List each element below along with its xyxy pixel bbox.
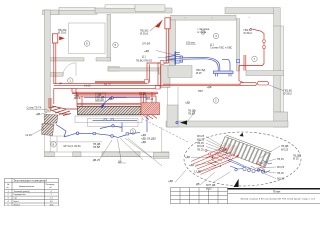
svg-text:2: 2 <box>8 194 10 196</box>
room 4 <box>213 33 218 38</box>
svg-text:Площадь,: Площадь, <box>46 184 56 186</box>
room 3 <box>130 129 135 134</box>
wall bath shaft vertical <box>170 20 176 66</box>
callout dashed ellipse <box>184 132 301 186</box>
title block leaders <box>175 170 186 183</box>
svg-text:ФЛ,25: ФЛ,25 <box>281 147 289 151</box>
riser pair left vertical <box>53 43 55 84</box>
svg-text:Д.1: Д.1 <box>142 55 146 59</box>
svg-text:Тепловой узел(а): Тепловой узел(а) <box>14 190 30 193</box>
detail top arrow mark <box>240 133 244 137</box>
red pipe scribble over wall <box>49 107 71 116</box>
legend table bottom-left <box>5 178 59 206</box>
svg-text:ФЛ,13: ФЛ,13 <box>146 97 154 101</box>
svg-text:+ДВ: +ДВ <box>144 49 149 53</box>
wall top far-right band <box>225 8 274 14</box>
svg-text:ГВ,ВО,ПВ Ø2: ГВ,ВО,ПВ Ø2 <box>136 59 153 63</box>
manifold red hatch block <box>141 103 160 115</box>
wall top light band 2 <box>135 5 165 12</box>
svg-text:Стояк Т3-Т4: Стояк Т3-Т4 <box>27 106 42 110</box>
kitchen right wall line <box>177 87 179 121</box>
wall top light band <box>59 7 95 12</box>
svg-text:ДВ,25: ДВ,25 <box>93 158 101 162</box>
svg-text:ГВ,25: ГВ,25 <box>197 148 204 152</box>
radiator axonometric fins <box>220 135 272 168</box>
svg-text:5: 5 <box>115 43 117 47</box>
fitting right of towel rail <box>237 60 240 63</box>
svg-text:ФЛ,25: ФЛ,25 <box>197 144 205 148</box>
svg-text:+ДВ: +ДВ <box>185 101 190 105</box>
red drops under manifold <box>143 115 157 120</box>
left wall red drops <box>48 98 50 108</box>
svg-text:2: 2 <box>215 99 217 103</box>
towel pipe run <box>183 57 220 70</box>
svg-text:ДВ2Ф: ДВ2Ф <box>74 96 81 100</box>
bottom wall thin line left part <box>44 151 169 153</box>
circled b <box>201 30 205 34</box>
wall left vertical <box>44 10 50 112</box>
room 7 <box>252 56 257 61</box>
svg-text:+ДВ: +ДВ <box>189 163 194 167</box>
wall right outer light <box>280 26 283 112</box>
svg-text:6: 6 <box>86 42 88 46</box>
svg-text:Ø 25х2: Ø 25х2 <box>140 31 149 35</box>
svg-text:1: 1 <box>69 79 71 83</box>
anchor triangle kitchen <box>180 120 187 124</box>
room 8 <box>51 142 56 147</box>
radiator bar plan (hatched) <box>78 106 142 114</box>
svg-text:ФЛ,25: ФЛ,25 <box>277 165 285 169</box>
svg-text:ФЛ,25: ФЛ,25 <box>277 177 285 181</box>
red bits in valve train <box>251 162 265 171</box>
svg-text:12,25: 12,25 <box>25 133 32 137</box>
svg-text:19,08: 19,08 <box>84 84 91 88</box>
kitchen bottom line <box>162 151 169 153</box>
svg-text:Ø 25: Ø 25 <box>206 187 212 191</box>
svg-text:+ДВ: +ДВ <box>141 133 146 137</box>
door arc room1 <box>63 63 76 76</box>
detail right leader fan <box>260 146 280 158</box>
svg-text:3: 3 <box>8 198 10 200</box>
bath blue polyline <box>100 126 122 129</box>
riser jog to corridor <box>147 63 166 82</box>
svg-text:12 ДВ: 12 ДВ <box>194 170 201 174</box>
callout dashed leader <box>142 119 189 143</box>
wall top band right of riser <box>171 15 237 20</box>
comb leaders to labels <box>156 51 175 56</box>
svg-text:+ДВ ОК,ДВ2: +ДВ ОК,ДВ2 <box>141 137 156 141</box>
wall top main band <box>59 10 97 14</box>
svg-text:ОП.ФЛ: ОП.ФЛ <box>142 42 150 46</box>
svg-text:Суз: Суз <box>14 198 17 200</box>
radiator red hatch overlay <box>215 142 239 163</box>
svg-text:ГВ,25: ГВ,25 <box>197 141 204 145</box>
room6 inner inset rectangle <box>69 23 106 54</box>
svg-text:Кухня: Кухня <box>14 201 19 203</box>
svg-text:Ø 25х2: Ø 25х2 <box>58 30 67 34</box>
svg-text:Ø 25: Ø 25 <box>196 71 202 75</box>
svg-text:10,ДВ: 10,ДВ <box>139 92 146 96</box>
svg-text:ГВ,ВЛ: ГВ,ВЛ <box>93 145 101 149</box>
bath leaders to labels <box>100 140 113 160</box>
svg-text:1,1: 1,1 <box>50 198 54 200</box>
radiator right room <box>240 83 256 86</box>
red pair y81.5 corridor <box>95 80 147 82</box>
wall kitchen left vertical <box>167 105 178 127</box>
svg-text:+ДВ: +ДВ <box>185 155 190 159</box>
right risers to towel rail <box>243 55 245 71</box>
svg-text:ДВ: ДВ <box>196 182 200 186</box>
riser arrow top <box>155 19 163 27</box>
left wall hatched piece lower <box>42 124 54 136</box>
red valve circles on supply pipes <box>205 149 214 158</box>
svg-text:8: 8 <box>53 143 55 147</box>
red run y88.3 <box>54 87 161 89</box>
svg-text:+ДВ: +ДВ <box>35 112 40 116</box>
svg-text:Стояки ГВС и ХВС: Стояки ГВС и ХВС <box>210 45 232 49</box>
bundle y92-96 <box>72 91 158 93</box>
svg-text:ГВ,25: ГВ,25 <box>277 157 284 161</box>
detail bottom leaders <box>213 172 230 183</box>
wall room6 bottom <box>50 58 84 61</box>
blue diagonal arrow corridor <box>102 97 113 106</box>
wall top thin band above <box>105 5 135 8</box>
blue pipes threading under radiator <box>225 158 252 170</box>
blue valve train axo <box>230 161 272 174</box>
radiator enclosure inner <box>88 119 139 127</box>
niche blue line <box>93 119 138 121</box>
red supply pipes axo <box>191 148 239 175</box>
svg-text:м²: м² <box>50 186 52 189</box>
room 1 <box>68 78 73 83</box>
bathroom divider vertical <box>56 136 58 152</box>
svg-text:ФЛ,25: ФЛ,25 <box>197 137 205 141</box>
red run y83.5 <box>54 82 147 84</box>
svg-text:Ø 25х2: Ø 25х2 <box>244 31 253 35</box>
svg-text:Гардеробная: Гардеробная <box>14 194 26 196</box>
room 6 <box>84 41 89 46</box>
bath fixture line <box>50 141 103 143</box>
svg-text:ГВ,25: ГВ,25 <box>277 171 284 175</box>
section arrow black <box>234 179 239 187</box>
svg-text:Ч/П 10,0 сМ Вт: Ч/П 10,0 сМ Вт <box>63 144 82 148</box>
wall top-left corner block <box>43 10 60 15</box>
svg-text:ФЛТ ДВ: ФЛТ ДВ <box>206 183 216 187</box>
corridor corner fitting boxes <box>145 80 149 84</box>
svg-text:ВК,25: ВК,25 <box>104 83 111 87</box>
wall left small segment <box>50 73 63 77</box>
svg-text:ГВЛ: ГВЛ <box>198 89 203 93</box>
title right cell lines <box>228 193 320 195</box>
niche outline under radiator <box>75 116 142 123</box>
svg-text:Экспликация помещений: Экспликация помещений <box>14 179 48 183</box>
wall under top-right room <box>246 71 284 76</box>
svg-text:+ДВ: +ДВ <box>141 140 146 144</box>
svg-text:4: 4 <box>51 191 53 193</box>
wall right vertical <box>274 26 281 112</box>
detail left leader fan <box>206 136 222 146</box>
wall top-right room divider <box>237 19 240 71</box>
svg-text:7: 7 <box>254 57 256 61</box>
svg-text:+ДВ: +ДВ <box>168 179 173 183</box>
left wall lower edges <box>43 123 45 152</box>
wall room5 corridor <box>108 67 119 71</box>
wall between room6 and room5 <box>107 14 111 61</box>
room 5 <box>113 42 118 47</box>
bathroom divider horizontal <box>50 135 69 137</box>
red diagonal feeds to bar left end <box>52 106 77 109</box>
left wall hatched piece upper <box>44 114 58 123</box>
svg-text:Ø 25х2: Ø 25х2 <box>284 92 293 96</box>
bundle drops to radiator <box>76 92 78 107</box>
svg-text:пп.: пп. <box>7 187 10 189</box>
svg-text:План: План <box>273 189 281 193</box>
lines above radiator bar <box>77 103 159 105</box>
towel pipe second drop <box>222 59 230 70</box>
svg-text:+: + <box>249 16 251 19</box>
title block grid <box>171 188 228 204</box>
svg-text:Жилой этажных 8 90 Сантехника: Жилой этажных 8 90 Сантехника ВТ ТКЗ v0 … <box>241 197 316 200</box>
towel rail base <box>214 71 234 74</box>
kitchen blue run <box>64 133 140 138</box>
svg-text:100 мм: 100 мм <box>186 41 195 45</box>
svg-text:4: 4 <box>215 34 217 38</box>
riser pair top vertical <box>165 29 167 63</box>
wall bottom-right corner block <box>274 112 288 127</box>
blue line in bundle <box>84 96 150 98</box>
riser box left T3 <box>52 34 57 43</box>
room 2 <box>213 98 218 103</box>
svg-text:№: № <box>7 183 10 186</box>
svg-text:Наименование: Наименование <box>19 186 35 188</box>
wall bath bottom gray mass <box>168 66 192 78</box>
svg-text:+ДВ: +ДВ <box>207 85 212 89</box>
anchor point kitchen wall <box>176 122 178 124</box>
wall right corner block <box>274 8 281 27</box>
main red run y85 <box>54 84 240 86</box>
title top thick rule <box>228 188 320 190</box>
wall corridor-kitchen vertical <box>161 66 170 88</box>
wall top main band right <box>95 8 172 13</box>
top-right room red riser loop <box>239 29 264 66</box>
towel comb <box>174 52 176 65</box>
svg-text:ДВ: ДВ <box>109 97 113 101</box>
comb feed stubs through wall <box>166 56 175 58</box>
svg-text:ФЛ,25: ФЛ,25 <box>197 134 205 138</box>
riser box top T3 <box>165 18 170 29</box>
riser arrow left <box>59 36 65 40</box>
blue feed from wall <box>56 125 66 138</box>
svg-text:ГВ,ДВ: ГВ,ДВ <box>281 144 289 148</box>
svg-text:1: 1 <box>51 194 53 196</box>
wall bottom-left blocks <box>44 152 54 157</box>
svg-text:1: 1 <box>8 191 10 193</box>
svg-text:Жилая: Жилая <box>14 205 20 206</box>
comb fittings <box>180 56 182 58</box>
kitchen wall corner vertical <box>161 127 163 152</box>
svg-text:Ø 25: Ø 25 <box>293 157 299 161</box>
wall bottom band right portion <box>166 121 288 127</box>
